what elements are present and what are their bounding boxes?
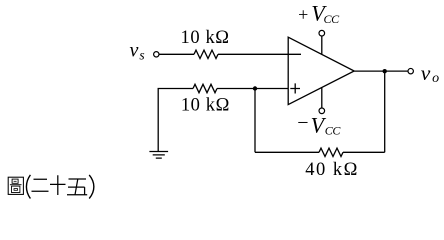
power terminal -VCC (319, 87, 325, 114)
svg-text:−VCC: −VCC (297, 112, 341, 138)
wire node B down to feedback rail (384, 71, 386, 152)
node vo output terminal (408, 68, 413, 73)
resistor R3 (319, 148, 343, 156)
label R1 value 10 kΩ (181, 28, 230, 48)
ground (149, 152, 168, 159)
op-amp U1 plus marker (noninverting input) (290, 83, 300, 93)
svg-text:vo: vo (421, 61, 439, 86)
svg-text:vs: vs (130, 39, 145, 62)
caption glyph 五 (67, 179, 87, 195)
op-amp U1 (288, 37, 354, 104)
label vs (130, 39, 145, 62)
label R2 value 10 kΩ (181, 95, 230, 115)
wire ground up and right to R2 (158, 89, 193, 152)
svg-text:+VCC: +VCC (298, 0, 340, 26)
caption glyph ) (89, 175, 94, 199)
resistor R2 (193, 84, 217, 92)
caption glyph ( (26, 175, 30, 199)
node vs input terminal (154, 52, 159, 57)
label R3 value 40 kΩ (305, 160, 359, 180)
svg-text:40 kΩ: 40 kΩ (305, 160, 359, 180)
wire feedback rail left segment (255, 151, 319, 153)
svg-text:10 kΩ: 10 kΩ (181, 28, 230, 48)
resistor R1 (194, 50, 218, 58)
caption glyph 二 (32, 179, 49, 191)
label vo (421, 61, 439, 86)
caption glyph 圖 (8, 177, 23, 194)
wire R2 to op-amp noninverting input (217, 88, 288, 90)
power terminal +VCC (319, 30, 325, 54)
wire R3 to node B vertical (343, 151, 385, 153)
wire R1 to op-amp inverting input, continues as minus marker (218, 53, 301, 55)
caption glyph 十 (50, 175, 66, 195)
label +VCC (298, 0, 340, 26)
svg-text:10 kΩ: 10 kΩ (181, 95, 230, 115)
node B output junction (383, 69, 387, 73)
node A junction at noninverting input (253, 86, 257, 90)
wire op-amp output to vo terminal (354, 70, 408, 72)
wire node A down to feedback rail (254, 89, 256, 153)
caption 圖(二十五) figure number (8, 175, 94, 199)
wire vs terminal to R1 (159, 53, 194, 55)
label -VCC (297, 112, 341, 138)
